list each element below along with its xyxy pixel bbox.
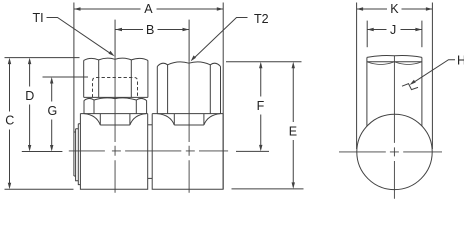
- right nut facet lines: [168, 65, 211, 114]
- thread depth reference line G: [43, 76, 89, 78]
- extension line J left: [366, 21, 368, 48]
- centerline side view vertical: [393, 56, 395, 199]
- dimension B line: [116, 28, 190, 31]
- leader T2: [191, 18, 248, 62]
- center reference line left (for D and G): [22, 151, 63, 153]
- svg-text:B: B: [146, 23, 154, 37]
- dimension J line: [367, 28, 422, 31]
- extension line B left: [114, 20, 116, 58]
- right nut outline: [157, 62, 220, 114]
- extension line A left: [73, 3, 75, 177]
- svg-text:C: C: [5, 114, 14, 128]
- top reference line right (right nut top extended): [226, 61, 302, 63]
- left body outline: [80, 114, 147, 190]
- svg-text:K: K: [390, 2, 399, 16]
- svg-text:F: F: [257, 99, 265, 113]
- right body outline: [152, 114, 223, 190]
- centerline right unit vertical: [188, 62, 190, 193]
- bridge between bodies lower: [148, 177, 153, 179]
- dimension F line: [259, 62, 262, 152]
- dimension K line: [357, 7, 433, 10]
- extension line B right: [188, 20, 190, 62]
- top reference line left (nut top level): [5, 57, 80, 59]
- bridge between bodies upper: [148, 124, 153, 126]
- centerline left unit vertical: [114, 58, 116, 193]
- dimension D line: [28, 58, 31, 152]
- leader H: [410, 60, 456, 85]
- dimension G line: [50, 77, 53, 152]
- svg-text:A: A: [144, 2, 153, 16]
- extension line J right: [421, 21, 423, 48]
- centerline side view horizontal: [339, 151, 442, 153]
- centerline horizontal front: [69, 150, 228, 152]
- thread squiggle mark: [402, 84, 418, 90]
- baseline left (for C): [5, 188, 74, 190]
- left nut top chamfer arcs: [84, 58, 148, 60]
- center reference line right (for F): [236, 150, 269, 152]
- left nut outline: [84, 60, 148, 97]
- svg-text:TI: TI: [33, 11, 44, 25]
- svg-text:T2: T2: [254, 12, 269, 26]
- side view circle: [357, 114, 432, 189]
- svg-text:G: G: [48, 104, 58, 118]
- extension line A right: [222, 3, 224, 190]
- svg-text:E: E: [289, 125, 297, 139]
- left side tab steps: [74, 124, 81, 185]
- left nut hidden thread (dashed): [93, 78, 138, 98]
- svg-text:D: D: [25, 89, 34, 103]
- baseline right (for E): [232, 188, 304, 190]
- left nut facet lines: [99, 60, 132, 98]
- svg-text:H: H: [457, 53, 464, 67]
- extension line K right: [431, 3, 433, 150]
- svg-text:J: J: [390, 23, 396, 37]
- dimension E line: [292, 62, 295, 189]
- left lower hex band: [84, 98, 147, 114]
- side view nut: [367, 56, 422, 127]
- extension line K left: [356, 3, 358, 150]
- dimension A line: [74, 7, 223, 10]
- leader T1: [47, 18, 115, 57]
- dimension C line: [8, 58, 11, 190]
